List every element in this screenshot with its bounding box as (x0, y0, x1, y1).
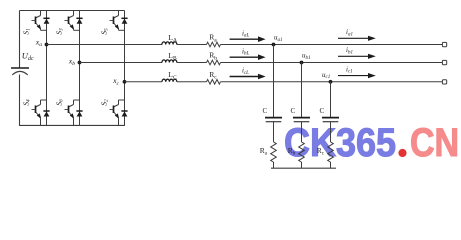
wire column b node to capacitor (301, 63, 303, 118)
node xa junction dot (45, 43, 49, 47)
node xb junction dot (78, 61, 82, 65)
wire phase c inductor to resistor (177, 81, 207, 83)
wire phase a resistor to output terminal (221, 44, 443, 46)
svg-text:CN: CN (410, 119, 459, 164)
wire column c node to capacitor (330, 82, 332, 117)
wire left DC rail lower (19, 75, 21, 126)
current arrow i_cL (230, 74, 266, 80)
wire column a capacitor to resistor (273, 122, 275, 142)
svg-text:C: C (291, 107, 296, 115)
wire column c capacitor to resistor (330, 122, 332, 142)
wire resistor Rb2 to common bar (301, 162, 303, 168)
resistor Ra2 (damping) (271, 142, 277, 162)
node u_b1 junction dot (300, 61, 304, 65)
wire left DC rail upper (19, 11, 21, 69)
current arrow i_c1 (338, 73, 376, 78)
resistor Rb2 (damping) (299, 142, 305, 162)
transistor S3 with diode (top leg 2) (65, 11, 83, 31)
resistor Rb (series) (207, 60, 221, 65)
transistor S2 with diode (bottom leg 3) (110, 100, 128, 126)
current arrow i_aL (230, 36, 266, 42)
wire bottom DC rail (20, 124, 125, 126)
wire phase b from node to inductor (80, 62, 163, 64)
wire phase a from node to inductor (47, 44, 163, 46)
terminal phase c (442, 80, 446, 84)
wire phase a inductor to resistor (177, 44, 207, 46)
terminal phase a (442, 42, 446, 46)
current arrow i_b1 (338, 54, 376, 59)
current arrow i_bL (230, 54, 266, 60)
transistor S4 with diode (bottom leg 1) (32, 100, 50, 126)
resistor Rc (series) (207, 80, 221, 85)
transistor S1 with diode (top leg 1) (32, 11, 50, 31)
wire inverter leg 2 vertical (79, 11, 81, 126)
node xc junction dot (123, 80, 127, 84)
current arrow i_a1 (338, 36, 376, 41)
wire phase c resistor to output terminal (221, 81, 443, 83)
inductor LB (162, 60, 177, 63)
wire common bottom bar (271, 167, 336, 169)
terminal phase b (442, 60, 446, 64)
wire inverter leg 3 vertical (124, 11, 126, 126)
transistor S5 with diode (top leg 3) (110, 11, 128, 31)
wire inverter leg 1 vertical (46, 11, 48, 126)
wire column a node to capacitor (273, 45, 275, 118)
wire column b capacitor to resistor (301, 122, 303, 142)
capacitor Cb (293, 118, 310, 122)
resistor Rc2 (damping) (328, 142, 334, 162)
inductor LC (162, 79, 177, 82)
svg-text:C: C (320, 107, 325, 115)
battery Udc (11, 68, 29, 75)
watermark CK365.CN (284, 119, 459, 165)
wire top DC rail (20, 10, 125, 12)
transistor S6 with diode (bottom leg 2) (65, 100, 83, 126)
node u_a1 junction dot (272, 43, 276, 47)
inductor LA (162, 42, 177, 45)
svg-text:C: C (263, 107, 268, 115)
resistor Ra (series) (207, 42, 221, 47)
wire phase c from node to inductor (125, 81, 163, 83)
wire phase b inductor to resistor (177, 62, 207, 64)
node u_c1 junction dot (329, 80, 333, 84)
capacitor Ca (265, 118, 282, 122)
wire resistor Ra2 to common bar (273, 162, 275, 168)
wire phase b resistor to output terminal (221, 62, 443, 64)
capacitor Cc (322, 118, 339, 122)
wire resistor Rc2 to common bar (330, 162, 332, 168)
